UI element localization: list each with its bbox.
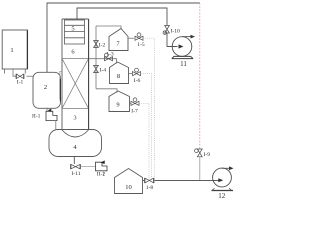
wire pump II-1 to vessel 4 [55,121,57,130]
wire valve I-11 to pump II-2 [81,166,96,168]
wire header to vessel 7 [96,26,121,29]
svg-text:I-1: I-1 [17,80,24,86]
svg-text:II-2: II-2 [97,171,106,177]
wire pump II-2 to vessel 10 [103,171,105,176]
svg-text:12: 12 [218,192,226,200]
wire I-7 to drop [139,103,149,180]
svg-text:I-6: I-6 [134,78,141,84]
svg-text:1-3: 1-3 [106,51,114,57]
column 3 shell [62,19,89,137]
wire vessel 7 outlet [128,37,134,39]
pump II-2 [96,160,108,170]
valve I-3 [105,53,113,61]
svg-text:1-8: 1-8 [146,185,154,191]
vessel 2 [33,72,61,108]
vessel 4 [49,130,102,157]
feed header to receivers [95,26,97,89]
column dark right wall [88,19,90,129]
valve I-11 [71,164,81,169]
wire vessel 10 to valve I-8 [143,180,145,182]
wire I-5 to drop [143,38,155,180]
pump II-1 [46,109,57,121]
svg-text:2: 2 [44,84,47,91]
valve I-8 [145,178,155,183]
wire I-6 to drop [141,74,152,181]
valve I-10 [163,26,169,35]
vessel 10 [115,169,143,194]
wire pump 12 outlet [222,167,232,169]
wire column overhead y=8 [77,8,167,25]
wire right vertical below valve I-9 [199,157,201,180]
svg-text:I-10: I-10 [171,29,181,35]
wire tank 1 outlet [13,69,16,76]
svg-text:9: 9 [116,102,119,109]
bracket gauge on column left [60,71,61,98]
valve I-7 [131,98,139,106]
wire valve I-10 to pump 11 [167,34,178,47]
wire vessel 8 outlet [129,73,133,75]
svg-text:I-2: I-2 [99,42,106,48]
valve I-9 [195,149,203,157]
wire vessel 2 to pump II-1 [46,108,48,112]
svg-text:10: 10 [125,184,132,191]
svg-text:I-4: I-4 [100,67,107,73]
wire I-3 line [89,59,117,64]
node labels [10,26,225,201]
packed section 5 [65,20,85,44]
valve I-2 [94,41,99,48]
vessel 9 [109,91,130,112]
pump 12 [212,168,234,190]
wire pump 11 outlet [182,36,192,38]
wire header to vessel 9 [96,89,117,93]
wire vessel 4 outlet [73,157,75,165]
valve I-1 [16,74,24,79]
wire suction line to pump 12 [154,179,218,181]
tank 1 [2,30,27,69]
svg-text:8: 8 [117,73,120,80]
svg-text:5: 5 [71,26,74,33]
svg-text:I-7: I-7 [131,108,138,114]
pump 11 [172,37,193,59]
svg-text:3: 3 [73,115,76,122]
wire vessel 9 outlet [130,102,132,104]
svg-text:II-1: II-1 [32,114,41,120]
vessel 8 [110,62,129,84]
svg-text:I-11: I-11 [71,171,80,177]
valve I-6 [133,68,141,76]
column X packing section [62,59,89,109]
svg-text:11: 11 [180,60,187,68]
vessel 2 dark right wall [59,79,61,102]
valve I-4 [94,65,99,72]
svg-text:1-5: 1-5 [137,42,145,48]
wire top recycle horizontal y=3 [47,3,200,73]
svg-text:1: 1 [10,47,13,54]
svg-text:I-9: I-9 [204,152,211,158]
vessel 7 [109,29,128,51]
tank 1 dark right wall [26,31,28,70]
valve I-5 [135,33,143,40]
